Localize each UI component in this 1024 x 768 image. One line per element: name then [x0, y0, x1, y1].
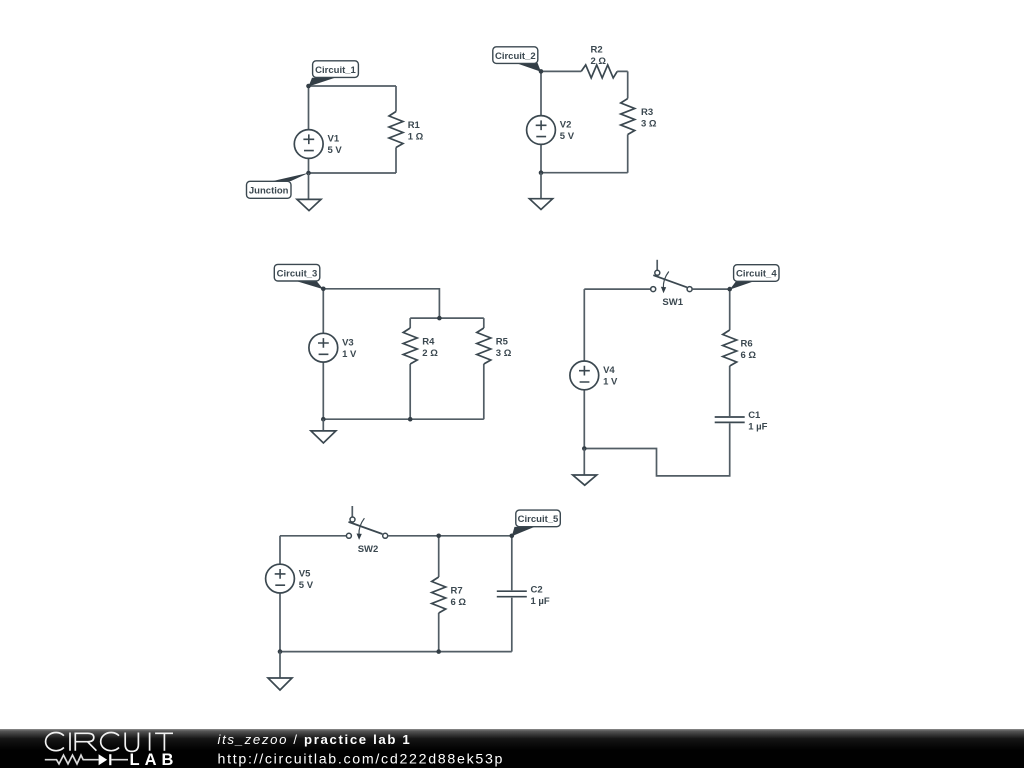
svg-text:V3: V3	[342, 337, 354, 348]
label Circuit_3	[274, 264, 323, 289]
voltage source V3	[309, 333, 357, 362]
ground C2	[529, 173, 552, 210]
svg-text:C1: C1	[748, 410, 761, 421]
ground C4	[573, 449, 597, 486]
node dot top C2	[539, 69, 544, 74]
svg-text:1 µF: 1 µF	[531, 596, 550, 607]
wire top C3	[323, 289, 439, 318]
svg-text:V4: V4	[603, 365, 615, 376]
svg-text:R6: R6	[741, 339, 753, 350]
svg-text:1 Ω: 1 Ω	[408, 131, 424, 142]
label Circuit_1	[309, 61, 359, 87]
node dot top C4	[727, 287, 732, 292]
svg-text:C2: C2	[531, 584, 543, 595]
svg-text:V1: V1	[328, 134, 340, 145]
resistor R7	[432, 577, 467, 613]
svg-text:R4: R4	[422, 337, 435, 348]
svg-text:R3: R3	[641, 107, 653, 118]
wire top C2	[541, 70, 628, 72]
voltage source V2	[527, 116, 575, 145]
junction dot R7 top	[436, 534, 441, 539]
wire bottom C1	[309, 172, 397, 174]
svg-text:Circuit_4: Circuit_4	[736, 269, 777, 280]
node dot top C3	[321, 287, 326, 292]
svg-text:3 Ω: 3 Ω	[496, 348, 512, 359]
wire R7 leads	[438, 536, 440, 652]
svg-text:2 Ω: 2 Ω	[422, 348, 438, 359]
node dot top C1	[306, 84, 311, 89]
logo LAB text	[130, 751, 179, 768]
wire bottom C3	[323, 418, 484, 420]
junction dot bottom V3	[321, 417, 326, 422]
svg-text:V5: V5	[299, 568, 311, 579]
node dot top C5	[510, 534, 515, 539]
wire bus C3	[410, 317, 484, 319]
resistor R3	[621, 99, 657, 135]
svg-text:LAB: LAB	[130, 751, 179, 768]
junction dot bottom R4	[408, 417, 413, 422]
footer url line	[218, 752, 505, 768]
junction dot bottom R7	[436, 649, 441, 654]
footer bar	[0, 729, 1024, 768]
resistor R4	[403, 328, 438, 364]
svg-text:R7: R7	[451, 586, 463, 597]
wire V1 leads	[308, 86, 310, 173]
svg-text:R1: R1	[408, 120, 421, 131]
junction dot bottom C2	[539, 170, 544, 175]
svg-text:its_zezoo / practice lab 1: its_zezoo / practice lab 1	[218, 732, 412, 747]
svg-text:1 V: 1 V	[603, 377, 618, 388]
voltage source V1	[294, 130, 342, 159]
svg-text:2 Ω: 2 Ω	[591, 56, 607, 67]
switch SW1	[651, 260, 692, 308]
logo CIRCUIT letters	[46, 733, 173, 752]
svg-text:Circuit_3: Circuit_3	[277, 268, 318, 279]
label Circuit_5	[512, 510, 561, 536]
svg-text:3 Ω: 3 Ω	[641, 119, 657, 130]
wire V3 leads	[322, 289, 324, 419]
voltage source V5	[266, 564, 314, 593]
label Circuit_2	[493, 47, 541, 72]
wire R4 leads	[409, 318, 411, 419]
label Circuit_4	[730, 265, 779, 290]
resistor R6	[723, 330, 757, 366]
capacitor C2	[497, 584, 550, 607]
wire switch to node C4	[692, 288, 730, 290]
ground C3	[311, 419, 336, 443]
svg-text:Junction: Junction	[249, 186, 289, 197]
svg-text:6 Ω: 6 Ω	[741, 350, 757, 361]
switch SW2	[346, 506, 387, 555]
svg-text:Circuit_1: Circuit_1	[315, 65, 356, 76]
wire right column C4	[729, 289, 731, 416]
svg-text:V2: V2	[560, 120, 572, 131]
wire V5 leads	[279, 536, 281, 652]
label Junction	[247, 173, 310, 199]
svg-text:1 V: 1 V	[342, 349, 357, 360]
svg-text:5 V: 5 V	[328, 145, 343, 156]
wire top-left C5	[280, 535, 347, 537]
svg-text:1 µF: 1 µF	[748, 422, 767, 433]
svg-text:Circuit_2: Circuit_2	[495, 51, 536, 62]
svg-text:6 Ω: 6 Ω	[451, 597, 467, 608]
svg-text:SW2: SW2	[358, 544, 379, 555]
svg-text:SW1: SW1	[662, 297, 683, 308]
wire switch to node C5	[388, 535, 512, 537]
svg-text:R5: R5	[496, 337, 509, 348]
resistor R2	[581, 44, 617, 78]
resistor R1	[389, 112, 424, 148]
wire right column C1	[395, 86, 397, 173]
capacitor C1	[715, 410, 768, 433]
wire V2 leads	[540, 71, 542, 172]
junction dot bus C3	[437, 316, 442, 321]
svg-text:5 V: 5 V	[299, 580, 314, 591]
wire C2 leads	[511, 536, 513, 652]
logo resistor-diode glyph	[45, 754, 128, 765]
junction dot bottom V4	[582, 446, 587, 451]
svg-text:http://circuitlab.com/cd222d88: http://circuitlab.com/cd222d88ek53p	[218, 752, 505, 768]
ground C1	[297, 173, 321, 211]
svg-text:Circuit_5: Circuit_5	[518, 514, 559, 525]
junction dot bottom V5	[278, 649, 283, 654]
resistor R5	[477, 328, 512, 364]
wire below C1	[584, 423, 729, 476]
svg-text:5 V: 5 V	[560, 131, 575, 142]
wire bottom C5	[280, 651, 512, 653]
wire top C1	[309, 85, 397, 87]
wire bottom C2	[541, 172, 628, 174]
svg-text:R2: R2	[591, 44, 603, 55]
footer title line	[218, 732, 412, 747]
wire V4 leads	[583, 289, 585, 448]
ground C5	[268, 652, 292, 690]
wire right column C2	[627, 71, 629, 172]
wire R5 leads	[483, 318, 485, 419]
voltage source V4	[570, 361, 618, 390]
wire top-left C4	[584, 288, 651, 290]
junction dot bottom C1	[306, 171, 311, 176]
